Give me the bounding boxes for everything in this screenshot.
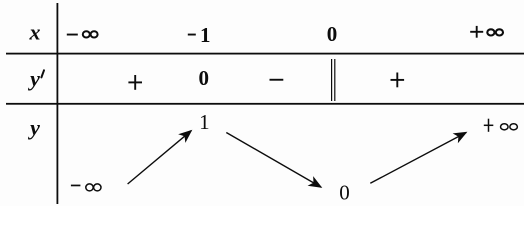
svg-text:x: x <box>29 20 41 45</box>
row y: limit +infinity (top right) : plus strokes <box>484 119 494 132</box>
row y: increasing arrow 3 <box>370 133 466 184</box>
row y: limit -infinity (bottom left) : minus stroke <box>71 185 81 187</box>
row x: +infinity : plus strokes <box>470 26 483 38</box>
svg-text:y: y <box>27 115 40 140</box>
row y': sign + (right) <box>391 73 405 88</box>
row y: limit -infinity : infinity circles <box>86 184 101 191</box>
horizontal line between y' row and y row <box>6 103 524 105</box>
svg-text:y: y <box>27 66 40 91</box>
vertical header separator line <box>57 3 59 204</box>
row x: +infinity : infinity circles <box>487 29 503 35</box>
row y': sign - <box>270 79 284 81</box>
row y: limit +infinity : infinity circles <box>501 124 518 130</box>
row x: -infinity : infinity circles <box>83 31 98 37</box>
svg-text:0: 0 <box>327 22 338 46</box>
svg-text:1: 1 <box>199 110 210 134</box>
horizontal line between x row and y' row <box>6 53 524 55</box>
svg-text:0: 0 <box>339 180 350 204</box>
row y: decreasing arrow 2 <box>226 133 321 188</box>
row x: value -1 : minus stroke <box>188 34 196 36</box>
row y': sign + (left) <box>128 75 142 90</box>
row y': double bar (discontinuity at x=0) <box>332 59 335 101</box>
svg-text:1: 1 <box>200 23 211 47</box>
row x: -infinity : minus stroke <box>67 34 78 36</box>
row y: increasing arrow 1 <box>128 131 192 184</box>
svg-text:0: 0 <box>198 66 209 90</box>
